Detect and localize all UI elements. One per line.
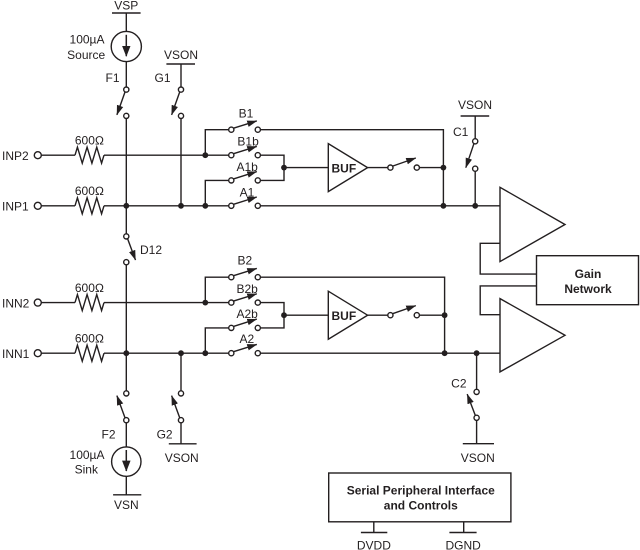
- wire B2 to right vertical: [260, 277, 444, 353]
- wire BUF1 switch to vertical: [419, 167, 443, 169]
- svg-text:C2: C2: [451, 377, 467, 391]
- wire C2 to VSON: [476, 420, 478, 443]
- input terminal INP2: [2, 149, 41, 163]
- svg-text:C1: C1: [453, 125, 469, 139]
- svg-text:INN1: INN1: [2, 347, 30, 361]
- wire join to BUF2: [284, 314, 328, 316]
- power rail VSP: [112, 0, 141, 13]
- svg-text:100µA: 100µA: [70, 448, 105, 462]
- power rail VSON (C1): [458, 98, 492, 116]
- svg-text:VSON: VSON: [165, 451, 199, 465]
- power rail VSON (C2): [461, 444, 495, 465]
- switch B2b: [229, 282, 261, 305]
- node INN1/A2b branch: [202, 350, 208, 356]
- svg-text:A2b: A2b: [237, 307, 259, 321]
- switch D12: [124, 234, 163, 265]
- svg-text:and Controls: and Controls: [384, 498, 458, 512]
- svg-text:B1b: B1b: [237, 135, 259, 149]
- op-amp U2: [500, 299, 565, 372]
- node vertical/INN1 row: [442, 350, 448, 356]
- switch B1b: [229, 135, 261, 158]
- svg-text:A2: A2: [240, 332, 255, 346]
- node INP2/B1 branch: [202, 152, 208, 158]
- wire A1 to op-amp U1: [260, 205, 500, 207]
- wire INN2 to resistor: [41, 302, 75, 304]
- wire BUF2 switch to vertical: [419, 314, 444, 316]
- pin DVDD: [357, 522, 391, 550]
- node C2/INN1 row: [474, 350, 480, 356]
- wire B2b to BUF join: [260, 303, 284, 316]
- svg-text:B1: B1: [239, 106, 254, 120]
- resistor R INN1 600 ohm: [75, 331, 104, 361]
- input terminal INN2: [2, 296, 41, 310]
- svg-text:600Ω: 600Ω: [75, 281, 104, 295]
- svg-text:VSON: VSON: [461, 451, 495, 465]
- node INP1/G1: [178, 203, 184, 209]
- svg-text:Gain: Gain: [575, 267, 602, 281]
- wire INP2 row to switch B1b: [104, 154, 229, 156]
- svg-text:B2b: B2b: [237, 282, 259, 296]
- node BUF1 out/vertical: [441, 165, 447, 171]
- wire C1 to INP1 row: [474, 171, 476, 206]
- svg-text:INN2: INN2: [2, 296, 30, 310]
- pin DGND: [446, 522, 482, 550]
- node INN1/main line: [123, 350, 129, 356]
- wire current source to switch F1: [125, 62, 127, 87]
- buffer BUF1: [328, 144, 367, 192]
- svg-text:DGND: DGND: [446, 539, 482, 550]
- wire VSON to switch C1: [474, 116, 476, 139]
- power rail VSON (G2): [165, 444, 199, 465]
- svg-text:B2: B2: [238, 254, 253, 268]
- power rail VSN: [113, 495, 141, 512]
- wire U1 lower input to gain network: [480, 243, 536, 274]
- svg-text:DVDD: DVDD: [357, 539, 391, 550]
- wire INP1 to resistor: [41, 205, 75, 207]
- node INN1/G2: [178, 350, 184, 356]
- wire current sink to VSN: [125, 476, 127, 495]
- switch BUF1 output: [388, 158, 420, 170]
- wire B2 branch: [205, 277, 228, 302]
- switch A2: [229, 332, 261, 356]
- switch F1: [105, 71, 128, 119]
- svg-text:100µA: 100µA: [70, 33, 105, 47]
- wire A2b to BUF join: [260, 315, 284, 328]
- svg-text:VSN: VSN: [114, 498, 139, 512]
- node BUF2 input join: [281, 312, 287, 318]
- current sink I2 100uA Sink: [70, 447, 141, 477]
- svg-text:G2: G2: [157, 428, 173, 442]
- wire INN1 row to switch C2: [476, 353, 478, 389]
- wire join to BUF1: [284, 167, 328, 169]
- node INP1/A1b branch: [202, 203, 208, 209]
- svg-text:Serial Peripheral Interface: Serial Peripheral Interface: [347, 484, 495, 498]
- switch BUF2 output: [388, 306, 420, 318]
- wire F2 to current sink: [125, 423, 127, 447]
- block Serial Peripheral Interface and Controls: [329, 473, 511, 522]
- switch C2: [451, 377, 479, 421]
- svg-text:F2: F2: [101, 428, 115, 442]
- svg-text:600Ω: 600Ω: [75, 184, 104, 198]
- resistor R INP1 600 ohm: [75, 184, 104, 214]
- power rail VSON (G1): [164, 48, 198, 64]
- wire VSP bar to current source: [125, 13, 127, 32]
- svg-text:INP2: INP2: [2, 149, 29, 163]
- wire INP2 to resistor: [41, 154, 75, 156]
- svg-text:INP1: INP1: [2, 200, 29, 214]
- wire INN1 to resistor: [41, 352, 75, 354]
- svg-text:F1: F1: [105, 71, 119, 85]
- input terminal INP1: [2, 200, 41, 214]
- wire INN1 row to switch F2: [125, 353, 127, 391]
- wire B1 to right vertical: [260, 130, 443, 206]
- switch A1: [229, 185, 261, 208]
- wire INP1 row to switch A1: [104, 205, 229, 207]
- wire BUF2 output: [368, 314, 388, 316]
- svg-text:VSON: VSON: [164, 48, 198, 62]
- svg-text:A1: A1: [240, 185, 255, 199]
- wire INP1 row to switch D12: [125, 206, 127, 234]
- svg-text:BUF: BUF: [332, 309, 357, 323]
- node BUF2 out/vertical: [442, 312, 448, 318]
- node INP1/F1: [123, 203, 129, 209]
- wire A1b branch: [205, 180, 228, 205]
- svg-text:600Ω: 600Ω: [75, 331, 104, 345]
- current source I1 100uA Source: [67, 31, 141, 62]
- switch B1: [229, 106, 261, 132]
- wire G1 to INP1 row: [180, 119, 182, 206]
- switch C1: [453, 125, 478, 171]
- svg-text:VSON: VSON: [458, 98, 492, 112]
- wire A1b to BUF join: [260, 168, 284, 181]
- switch A2b: [229, 307, 261, 331]
- wire INN2 row to switch B2b: [104, 302, 229, 304]
- svg-text:VSP: VSP: [114, 0, 138, 12]
- svg-text:Network: Network: [564, 282, 612, 296]
- wire D12 to INN1 row: [125, 265, 127, 353]
- switch G1: [154, 71, 183, 119]
- node C1/INP1 row: [472, 203, 478, 209]
- wire BUF1 output: [368, 167, 388, 169]
- wire VSON to switch G1: [180, 64, 182, 87]
- switch B2: [229, 254, 261, 280]
- op-amp U1: [500, 187, 565, 261]
- svg-text:600Ω: 600Ω: [75, 133, 104, 147]
- input terminal INN1: [2, 347, 41, 361]
- node INN2/B2 branch: [202, 300, 208, 306]
- svg-text:Source: Source: [67, 48, 105, 62]
- wire INN1 row to switch A2: [104, 352, 229, 354]
- svg-text:G1: G1: [154, 71, 170, 85]
- resistor R INP2 600 ohm: [75, 133, 104, 163]
- wire B1 branch: [205, 130, 228, 156]
- block Gain Network: [537, 256, 639, 305]
- wire G2 to VSON: [180, 423, 182, 444]
- wire F1 to INP1 row: [125, 119, 127, 206]
- wire A2 to op-amp U2: [260, 352, 500, 354]
- wire gain network to U2 upper input: [480, 286, 536, 315]
- wire A2b branch: [205, 328, 228, 353]
- svg-text:A1b: A1b: [237, 160, 259, 174]
- buffer BUF2: [328, 291, 367, 339]
- node BUF1 input join: [281, 165, 287, 171]
- svg-text:Sink: Sink: [75, 462, 99, 476]
- wire B1b to BUF join: [260, 155, 284, 167]
- wire INN1 row to switch G2: [180, 353, 182, 391]
- node vertical/INP1 row: [441, 203, 447, 209]
- switch G2: [157, 391, 184, 442]
- resistor R INN2 600 ohm: [75, 281, 104, 311]
- switch A1b: [229, 160, 261, 183]
- svg-text:D12: D12: [140, 243, 162, 257]
- switch F2: [101, 391, 128, 442]
- svg-text:BUF: BUF: [332, 161, 357, 175]
